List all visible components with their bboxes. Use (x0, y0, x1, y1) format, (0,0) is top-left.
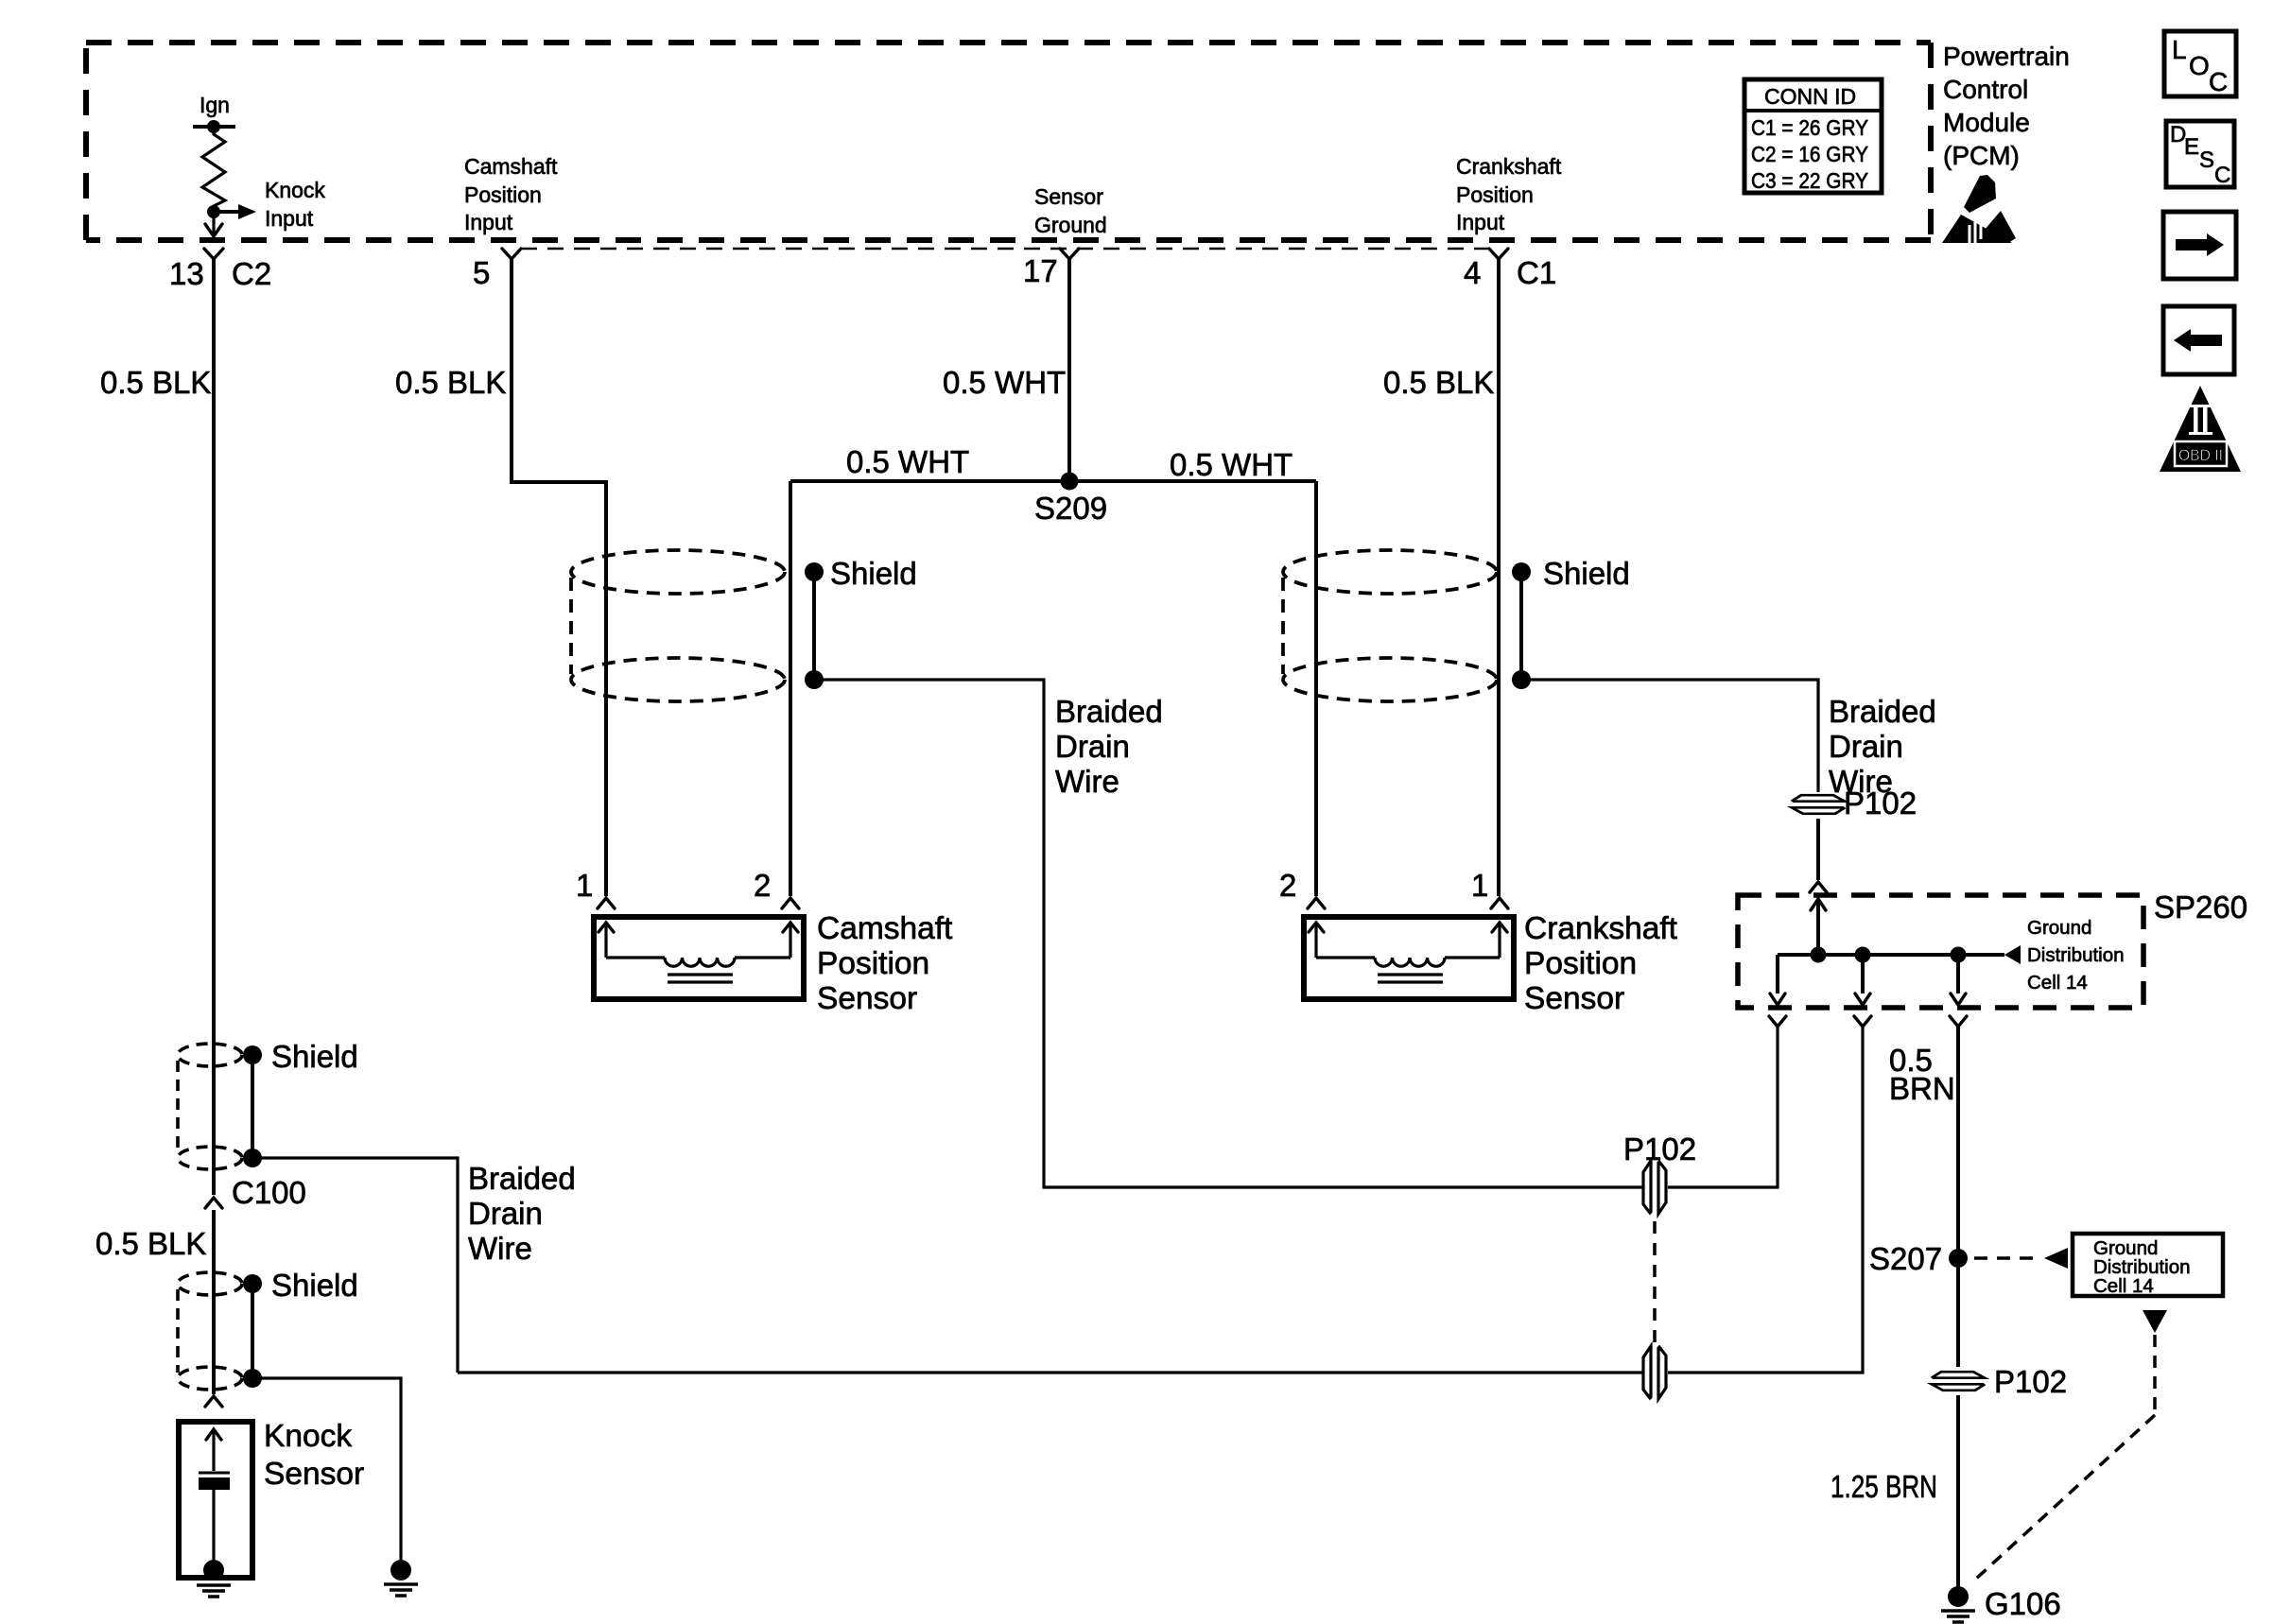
svg-text:Drain: Drain (1829, 729, 1903, 764)
OBD II triangle (2160, 386, 2241, 472)
knock lower shield tie (243, 1274, 262, 1388)
connector pin 5 chevron (502, 249, 521, 259)
svg-text:OBD II: OBD II (2178, 446, 2223, 464)
svg-text:C100: C100 (232, 1175, 306, 1210)
PCM dashed box (86, 43, 1931, 240)
crankshaft braided drain wire (1521, 680, 1818, 792)
knock upper cable shield (dashed) (178, 1044, 242, 1169)
resistor (knock input pull-up) (202, 127, 225, 212)
knock lower cable shield (dashed) (178, 1272, 242, 1390)
svg-text:Camshaft: Camshaft (817, 911, 953, 946)
svg-text:Ground: Ground (2027, 917, 2091, 939)
svg-text:SP260: SP260 (2154, 890, 2247, 924)
svg-text:Wire: Wire (1055, 764, 1119, 799)
wire 0.5 BLK knock (pin 13) down (212, 259, 216, 1195)
Powertrain Control Module (PCM) label (1943, 42, 2070, 170)
knock sensor internals (piezo element) (199, 1429, 230, 1581)
connector P102 (BRN wire, on vertical wire) (1931, 1372, 1986, 1391)
svg-text:Input: Input (265, 206, 314, 231)
svg-text:S: S (2199, 147, 2214, 173)
svg-text:0.5 BLK: 0.5 BLK (95, 1226, 206, 1261)
svg-text:Knock: Knock (264, 1419, 352, 1454)
svg-text:Braided: Braided (1829, 694, 1936, 729)
svg-text:4: 4 (1464, 255, 1481, 290)
connector pin 4 C1 chevron (1489, 249, 1508, 259)
lower shield drain to ground (252, 1378, 401, 1560)
arrow below Ground Distribution box (2143, 1310, 2167, 1333)
dashed connector link between P102 symbols (1653, 1221, 1657, 1346)
connector P102 (cam drain, on horizontal wire) (1643, 1160, 1666, 1215)
wire 0.5 WHT sensor ground (pin 17) down to S209 (1067, 259, 1071, 481)
crankshaft position sensor box (1304, 917, 1514, 999)
svg-text:C3 = 22 GRY: C3 = 22 GRY (1751, 168, 1868, 193)
svg-text:Shield: Shield (271, 1268, 358, 1303)
svg-text:5: 5 (473, 255, 490, 290)
crankshaft sensor pin 1 chevron (1491, 898, 1508, 908)
CONN ID table (1744, 79, 1882, 193)
svg-text:BRN: BRN (1889, 1071, 1955, 1106)
node splice on bus (knock drain) (1855, 947, 1871, 963)
svg-text:(PCM): (PCM) (1943, 141, 2020, 170)
camshaft cable shield (dashed cylinder) (571, 550, 785, 701)
SP260 dashed box (1738, 895, 2143, 1008)
svg-text:Position: Position (1524, 946, 1637, 981)
svg-text:1.25 BRN: 1.25 BRN (1831, 1469, 1937, 1504)
svg-text:0.5 WHT: 0.5 WHT (846, 444, 969, 479)
wire 0.5 BLK crankshaft (pin 4) down (1497, 259, 1501, 896)
connector P102 (crank drain, on vertical wire) (1791, 795, 1846, 814)
chevrons below SP260 bottom edge (1769, 1016, 1786, 1027)
svg-text:Knock: Knock (265, 178, 325, 202)
knock sensor connector chevron (205, 1396, 222, 1407)
svg-text:Powertrain: Powertrain (1943, 42, 2070, 71)
svg-text:C: C (2209, 67, 2228, 96)
svg-text:1: 1 (1471, 868, 1488, 903)
svg-text:0.5 BLK: 0.5 BLK (1383, 365, 1494, 400)
knock sensor box (179, 1422, 252, 1578)
knock braided drain from shield (252, 1158, 458, 1373)
svg-text:Drain: Drain (468, 1196, 543, 1231)
svg-text:Position: Position (817, 946, 929, 981)
node: knock input junction (207, 205, 220, 218)
svg-text:Sensor: Sensor (1524, 981, 1624, 1016)
camshaft sensor pin 1 chevron (598, 898, 615, 908)
svg-text:Shield: Shield (271, 1039, 358, 1074)
svg-text:C1: C1 (1517, 255, 1556, 290)
camshaft sensor pin 2 chevron (782, 898, 799, 908)
Ign supply bar (193, 120, 235, 133)
crankshaft cable shield (dashed cylinder) (1283, 550, 1497, 701)
bus drop left with down arrow (1770, 955, 1785, 1005)
chevron above SP260 top edge (1810, 882, 1827, 892)
svg-text:C2 = 16 GRY: C2 = 16 GRY (1751, 142, 1868, 166)
wire below P102 to SP260 (1816, 819, 1820, 880)
svg-text:0.5 BLK: 0.5 BLK (395, 365, 506, 400)
svg-text:0.5 BLK: 0.5 BLK (100, 365, 211, 400)
node S209 (1061, 473, 1079, 491)
wire 1.25 BRN down to G106 (1956, 1395, 1960, 1588)
wire 0.5 WHT down to camshaft pin 2 (789, 481, 792, 896)
S209 splice horizontal 0.5 WHT (790, 479, 1316, 483)
svg-text:17: 17 (1023, 253, 1058, 288)
dashed path from box to G106 (2153, 1335, 2157, 1415)
svg-text:Input: Input (464, 210, 513, 234)
LOC legend box (2164, 31, 2236, 96)
svg-text:E: E (2184, 134, 2199, 160)
svg-text:Cell 14: Cell 14 (2027, 972, 2088, 993)
svg-text:L: L (2172, 35, 2187, 64)
svg-text:C2: C2 (232, 256, 271, 291)
ground G106 (1941, 1586, 1975, 1622)
svg-text:P102: P102 (1623, 1132, 1696, 1166)
svg-text:P102: P102 (1844, 786, 1917, 821)
svg-text:13: 13 (169, 256, 204, 291)
svg-text:Shield: Shield (1543, 556, 1630, 591)
wire 0.5 BLK camshaft (pin 5) down with jog (512, 259, 606, 896)
svg-text:CONN ID: CONN ID (1764, 84, 1856, 109)
svg-text:Wire: Wire (468, 1231, 532, 1266)
svg-text:Sensor: Sensor (817, 981, 917, 1016)
svg-text:1: 1 (576, 868, 593, 903)
camshaft braided drain wire (814, 680, 1642, 1187)
connector P102 (knock drain, on horizontal wire) (1643, 1345, 1666, 1400)
svg-text:Input: Input (1456, 210, 1505, 234)
svg-text:Camshaft: Camshaft (464, 154, 558, 179)
svg-text:Position: Position (1456, 182, 1534, 207)
node splice on bus (BRN ground) (1951, 947, 1967, 963)
Ground Distribution Cell 14 box (2073, 1234, 2223, 1296)
connector C100 chevron (205, 1198, 222, 1208)
svg-text:Distribution: Distribution (2027, 944, 2125, 966)
svg-text:S207: S207 (1869, 1241, 1942, 1276)
knock braided drain long wire (458, 1371, 1642, 1373)
connector pin 13 C2 chevron (204, 249, 223, 259)
wire 0.5 WHT down to crankshaft pin 2 (1314, 481, 1318, 896)
svg-text:G106: G106 (1985, 1586, 2061, 1621)
svg-text:C: C (2214, 163, 2230, 188)
wire from S207 bus drop down (1956, 1027, 1960, 1367)
back arrow box (2163, 306, 2234, 374)
chassis ground for lower shield (384, 1560, 418, 1596)
svg-text:Ign: Ign (200, 93, 230, 117)
knock sensor ground hatching (197, 1585, 231, 1597)
svg-text:S209: S209 (1034, 491, 1107, 526)
knock upper shield tie (243, 1045, 262, 1167)
svg-text:O: O (2189, 51, 2210, 80)
crankshaft sensor pin 2 chevron (1308, 898, 1325, 908)
svg-text:Crankshaft: Crankshaft (1456, 154, 1562, 179)
camshaft sensor internal arrows and coil (599, 923, 798, 982)
node S207 (1949, 1249, 1968, 1268)
bus reference arrow to Ground Distribution (2004, 945, 2021, 964)
ESD sensitivity symbol (1942, 175, 2016, 243)
svg-text:Ground: Ground (1034, 213, 1107, 237)
svg-text:P102: P102 (1994, 1364, 2067, 1399)
svg-text:Position: Position (464, 182, 542, 207)
crankshaft sensor internal arrows and coil (1309, 923, 1507, 982)
reference arrow to Ground Distribution box (2044, 1248, 2068, 1269)
svg-text:0.5 WHT: 0.5 WHT (943, 365, 1066, 400)
svg-text:C1 = 26 GRY: C1 = 26 GRY (1751, 115, 1868, 140)
arrow entering SP260 at top (1811, 899, 1826, 955)
dashed reference from S207 (1974, 1256, 2042, 1260)
wire: junction down to PCM edge with arrowhead (205, 212, 222, 236)
bus drop mid with down arrow (1855, 955, 1870, 1005)
crankshaft shield tie (1512, 562, 1531, 689)
SP260 internal ground bus (1778, 953, 2004, 957)
camshaft position sensor box (594, 917, 804, 999)
svg-text:Module: Module (1943, 108, 2030, 137)
svg-text:2: 2 (754, 868, 771, 903)
svg-text:0.5 WHT: 0.5 WHT (1170, 447, 1293, 482)
svg-text:Control: Control (1943, 75, 2028, 104)
svg-text:Braided: Braided (468, 1161, 576, 1196)
svg-text:Sensor: Sensor (1034, 184, 1103, 209)
connector pin 17 chevron (1060, 249, 1079, 259)
arrow to Knock Input (214, 204, 256, 219)
svg-text:Sensor: Sensor (264, 1457, 364, 1492)
DESC legend box (2166, 121, 2234, 188)
bus drop right with down arrow (1951, 955, 1966, 1005)
forward arrow box (2163, 212, 2236, 279)
node splice on bus (crank drain) (1811, 947, 1827, 963)
svg-text:Crankshaft: Crankshaft (1524, 911, 1678, 946)
wire from camshaft drain up into SP260 (1668, 1027, 1778, 1187)
svg-text:Braided: Braided (1055, 694, 1163, 729)
svg-text:Drain: Drain (1055, 729, 1130, 764)
svg-text:Cell 14: Cell 14 (2093, 1275, 2154, 1297)
svg-text:2: 2 (1279, 868, 1296, 903)
camshaft shield tie (805, 562, 824, 689)
svg-text:Shield: Shield (830, 556, 917, 591)
PCM connector face thin dashed line (521, 248, 1489, 251)
wire 0.5 BLK below C100 (212, 1210, 216, 1394)
